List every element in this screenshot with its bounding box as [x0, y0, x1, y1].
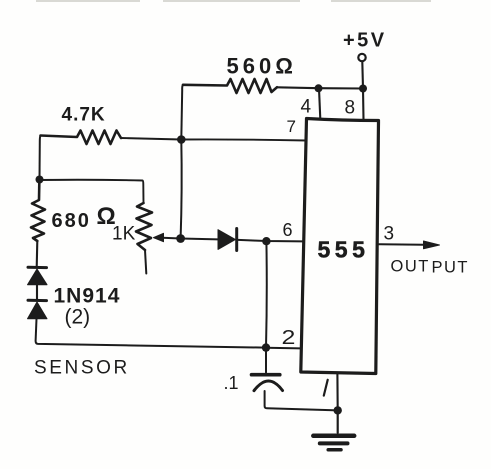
- resistor 560 ohm: [183, 79, 277, 93]
- potentiometer 1K zigzag: [136, 203, 152, 250]
- wire node B to diode D3: [181, 238, 218, 241]
- junction node A on pin7 wire: [177, 135, 186, 144]
- svg-text:555: 555: [318, 237, 370, 263]
- ground bar 1: [313, 434, 354, 439]
- ground stub: [337, 410, 339, 432]
- svg-text:OUT: OUT: [391, 258, 430, 276]
- junction supply-pin4: [315, 84, 323, 92]
- wire capacitor to ground node: [265, 391, 338, 410]
- diode D2 1N914 triangle: [28, 302, 48, 319]
- svg-text:680: 680: [52, 210, 91, 232]
- ground bar 3: [328, 448, 341, 452]
- wire pin 3 output: [378, 243, 424, 246]
- ground bar 2: [320, 441, 348, 445]
- op-amp : IC 555 box: [301, 119, 379, 374]
- wire 680 to diode stack: [36, 241, 39, 268]
- junction node B wiper: [176, 234, 185, 243]
- svg-text:560Ω: 560Ω: [227, 54, 297, 79]
- diode D1 1N914 triangle: [28, 269, 48, 285]
- diode D3 triangle: [218, 230, 236, 250]
- wire pin 8: [362, 89, 365, 120]
- svg-text:(2): (2): [65, 306, 91, 329]
- svg-text:4.7K: 4.7K: [62, 105, 106, 126]
- wire 560 left end down to node A: [181, 85, 183, 140]
- potentiometer wiper arrow: [154, 233, 164, 241]
- wire between diodes: [36, 285, 38, 300]
- wire pin6 node down to pin2 node: [265, 241, 268, 347]
- potentiometer bottom stub: [145, 250, 146, 274]
- svg-text:7: 7: [287, 117, 296, 136]
- wire 680 node to pot top: [40, 180, 144, 203]
- junction 680 top node: [36, 176, 44, 184]
- svg-text:3: 3: [384, 224, 395, 245]
- svg-text:2: 2: [282, 326, 296, 348]
- wire diode stack down to sensor line: [36, 319, 266, 348]
- svg-text:+5V: +5V: [343, 30, 387, 52]
- svg-text:4: 4: [301, 97, 312, 118]
- svg-text:1K: 1K: [112, 224, 136, 245]
- svg-text:.1: .1: [224, 373, 239, 393]
- wire pin 2: [266, 347, 301, 350]
- wire node A down to wiper node: [181, 140, 182, 239]
- junction pin2 node: [262, 343, 270, 351]
- wire 4.7K to pin 7: [121, 138, 307, 141]
- scan artifact band top: [36, 0, 431, 2]
- svg-text:6: 6: [283, 220, 293, 240]
- supply terminal circle: [358, 54, 365, 61]
- wire pin 1: [336, 374, 338, 411]
- diode D1 1N914 cathode bar: [28, 266, 47, 269]
- resistor 4.7K: [41, 131, 122, 145]
- junction pin6 node: [262, 237, 270, 245]
- svg-text:SENSOR: SENSOR: [34, 358, 130, 379]
- wire supply rail horizontal: [277, 87, 363, 88]
- wire +5V terminal to supply rail: [361, 62, 364, 89]
- junction supply-pin8: [359, 85, 367, 93]
- svg-text:1N914: 1N914: [54, 285, 121, 308]
- wire pin 4: [319, 89, 320, 120]
- svg-text:8: 8: [345, 98, 356, 119]
- capacitor C1 curved plate: [254, 381, 283, 391]
- resistor 680 ohm: [31, 184, 45, 242]
- wire pin2 node to capacitor: [265, 348, 267, 373]
- output arrowhead: [424, 241, 440, 249]
- wire D3 to pin 6: [238, 240, 303, 242]
- capacitor C1 top plate: [252, 373, 280, 377]
- pin label 1: [324, 380, 328, 396]
- wire wiper to node B: [163, 237, 181, 240]
- wire 4.7K left end down: [40, 136, 41, 180]
- diode D2 1N914 cathode bar: [28, 299, 47, 302]
- junction ground node: [334, 406, 342, 414]
- svg-text:PUT: PUT: [432, 259, 470, 277]
- diode D3 cathode bar: [235, 229, 238, 251]
